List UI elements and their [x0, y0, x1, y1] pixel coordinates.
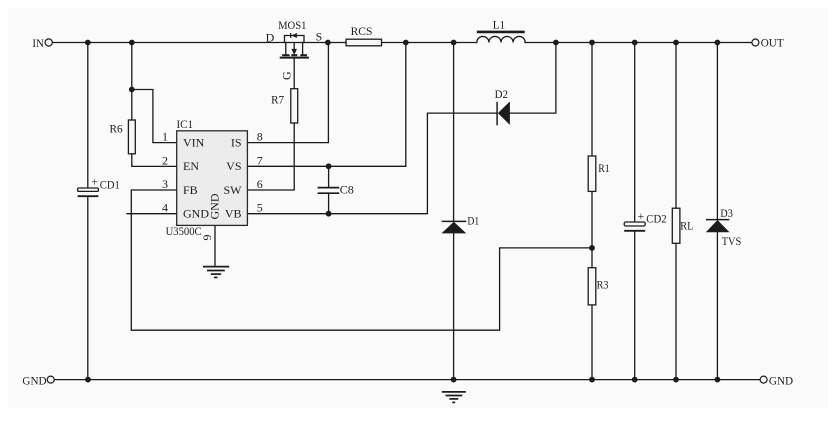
- svg-text:IN: IN: [32, 36, 44, 50]
- svg-text:CD2: CD2: [646, 211, 666, 225]
- svg-text:9: 9: [200, 235, 214, 241]
- svg-text:+: +: [638, 209, 645, 223]
- svg-text:3: 3: [162, 177, 168, 191]
- svg-text:GND: GND: [22, 374, 47, 388]
- svg-text:IS: IS: [231, 136, 242, 150]
- svg-text:U3500C: U3500C: [166, 224, 202, 238]
- svg-text:GND: GND: [769, 373, 794, 387]
- svg-text:IC1: IC1: [177, 117, 194, 131]
- svg-text:MOS1: MOS1: [278, 18, 306, 32]
- svg-text:GND: GND: [183, 207, 209, 221]
- svg-text:D2: D2: [495, 87, 508, 101]
- svg-text:+: +: [91, 174, 98, 188]
- svg-text:EN: EN: [183, 159, 199, 173]
- svg-text:OUT: OUT: [761, 36, 785, 50]
- svg-text:VIN: VIN: [183, 136, 205, 150]
- svg-text:R3: R3: [597, 277, 609, 291]
- svg-text:D3: D3: [720, 206, 732, 220]
- svg-text:G: G: [280, 71, 294, 80]
- svg-text:D1: D1: [467, 214, 479, 228]
- svg-text:FB: FB: [183, 183, 198, 197]
- svg-text:1: 1: [162, 130, 168, 144]
- svg-text:2: 2: [162, 153, 168, 167]
- svg-text:RCS: RCS: [351, 24, 373, 38]
- svg-text:GND: GND: [207, 193, 221, 219]
- svg-text:8: 8: [257, 130, 263, 144]
- svg-text:VS: VS: [226, 159, 241, 173]
- svg-text:L1: L1: [493, 17, 505, 31]
- svg-text:C8: C8: [340, 183, 354, 197]
- svg-text:CD1: CD1: [100, 177, 120, 191]
- svg-text:7: 7: [257, 153, 263, 167]
- svg-text:RL: RL: [680, 219, 693, 233]
- svg-text:R1: R1: [598, 161, 610, 175]
- svg-text:TVS: TVS: [722, 234, 742, 248]
- svg-text:SW: SW: [224, 183, 243, 197]
- svg-text:4: 4: [162, 201, 168, 215]
- svg-text:R7: R7: [271, 93, 284, 107]
- svg-text:5: 5: [257, 201, 263, 215]
- svg-text:R6: R6: [110, 121, 123, 135]
- svg-text:S: S: [316, 29, 323, 43]
- svg-text:VB: VB: [225, 207, 242, 221]
- svg-text:6: 6: [257, 177, 263, 191]
- svg-text:D: D: [266, 31, 275, 45]
